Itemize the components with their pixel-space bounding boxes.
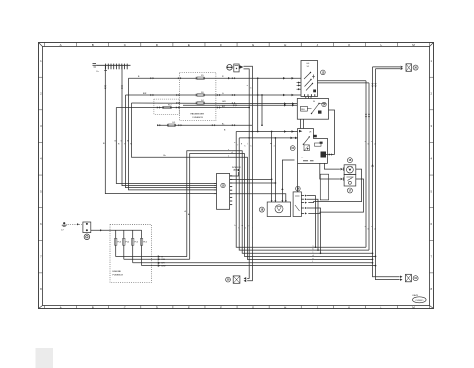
fuse F6 [196,92,204,96]
wire module to washer pump pin4 [230,194,286,202]
fuse FL5 [132,230,134,262]
labels on relay feed verticals [234,142,238,147]
wire branch row F4 down to rail C [132,103,373,259]
svg-text:LR: LR [309,131,312,133]
svg-text:c: c [371,141,372,143]
junction rail A / vertical 3 [372,252,374,254]
labels on center rails [228,143,252,158]
svg-text:E: E [188,43,190,47]
fuse FL2 [163,105,173,109]
svg-text:d: d [313,255,314,257]
wire washer pump feed 1 [271,132,273,203]
connector battery wire [77,223,79,225]
svg-text:g: g [241,143,242,145]
instrument cluster lamp module [234,64,239,72]
junction switch pin3 rail [320,252,322,254]
motor M1 [344,165,356,175]
connector marks FL2 row [157,106,298,139]
svg-text:F5: F5 [201,75,204,77]
svg-text:16: 16 [348,158,351,162]
callout 10 central module [221,183,225,187]
ignition switch bottom pins [305,94,315,96]
connector lamp module output [240,65,244,69]
svg-text:p: p [249,225,250,227]
wire relay2 to switch box [297,163,299,192]
wire module to washer pump pin2 [230,182,276,184]
wire feed to connector C2 upper [373,66,401,68]
svg-text:n: n [274,146,275,148]
svg-text:d: d [374,144,375,146]
wire ignition to relay coil 2 [307,97,309,99]
connector mark on wire B [104,86,106,90]
svg-text:H: H [284,43,286,47]
wire fuse row F6 [126,95,302,188]
wire relay feed vertical a [236,132,366,248]
svg-text:G/R: G/R [222,101,226,103]
wire relay K1 output right [329,110,335,155]
interior lamps feed arrow [230,167,242,176]
connector C3 [233,276,246,283]
labels on right verticals top [365,141,376,146]
svg-text:h: h [244,146,245,148]
svg-text:e: e [228,156,229,158]
wiper delay unit [320,174,328,200]
supply bus bar 30 [93,64,131,73]
wire engine fuse outputs [116,257,376,266]
svg-text:k: k [235,225,236,227]
ground point callout 9 [84,234,90,240]
fuse FL4 [123,230,125,259]
fusebox enclosure FL2 (dashed) [154,99,179,114]
junction switch pin2 rail [317,249,319,251]
connector marks FL row [157,124,294,133]
wire lamp drop 2 [244,69,250,108]
svg-text:a: a [365,141,367,143]
engine fusebox bus [110,229,142,231]
svg-text:LAMPS: LAMPS [233,168,240,171]
svg-text:H: H [284,305,286,309]
connector marks on verticals 3-4 [371,83,376,87]
junction row F5 branch [257,77,259,79]
svg-text:R/B: R/B [162,259,166,261]
connector C4 [400,274,411,282]
switch box pins right [301,195,307,215]
svg-text:d: d [232,152,233,154]
svg-text:B/W: B/W [162,266,166,268]
svg-text:FL4: FL4 [126,242,130,244]
connector marks row F4 [176,102,294,105]
wire ignition feed right upper [318,80,367,82]
wire switch pin2 down [307,199,318,250]
svg-text:3: 3 [431,124,433,128]
wire ignition feed right lower [318,82,370,84]
passenger fusebox (dashed) [180,73,216,121]
wire rail A [187,151,373,257]
svg-text:F: F [220,305,222,309]
wire ignition to relay coil 1 [305,97,307,99]
wire relay feed row [183,104,297,106]
callout 17 wiper switch [347,188,352,193]
junction lamp drop4 / relay row a [252,131,254,133]
pin arrows washer pump [271,200,287,202]
ignition switch U1 [301,61,318,97]
labels on rail risers [185,210,191,216]
connector mark on row F5 left [228,77,230,79]
warning lamp L1 [227,65,233,71]
wire battery to isolator (dashed) [67,223,83,225]
wire washer pump pin3 sense [282,160,294,202]
junction pump feed 1 [271,131,273,133]
wire resistor output [326,154,335,156]
svg-text:c: c [313,252,314,254]
callout 19 switch box [296,186,301,191]
fuse FL6 [141,230,143,265]
connector isolator output [100,229,102,231]
svg-text:18: 18 [260,208,263,212]
callout 18 washer pump [259,207,264,212]
svg-text:K: K [348,43,350,47]
svg-text:5: 5 [431,189,433,193]
svg-text:RFH: RFH [301,109,305,111]
svg-text:8: 8 [40,287,42,291]
wire isolator to engine fusebox [91,229,110,231]
wire washer pump feed 2 [274,138,276,202]
svg-text:F: F [220,43,222,47]
svg-text:b: b [368,229,369,231]
svg-text:6: 6 [431,222,433,226]
svg-text:15: 15 [291,147,294,150]
central control module U2 [217,174,230,210]
battery positive terminal [61,222,67,231]
svg-text:FL5: FL5 [135,242,139,244]
washer pump P1 [267,202,290,217]
svg-text:A: A [60,305,62,309]
switch box S2 [293,192,301,217]
callout 30 connector C2 [413,65,418,70]
labels on left cluster wires [115,141,133,146]
wire switch pin3 down [307,208,321,253]
connector marks row F5 [138,76,294,79]
svg-text:D+: D+ [97,71,100,73]
svg-text:1-1: 1-1 [307,66,310,68]
wire row F6 branch down [261,95,263,125]
svg-text:A: A [185,210,187,213]
connector motor feed [341,168,344,171]
central module right pins [230,176,233,205]
wire ignition to relay coil 3 [310,97,312,99]
svg-text:e: e [313,258,314,260]
svg-text:F4: F4 [201,100,204,102]
svg-text:3: 3 [40,124,42,128]
svg-text:r: r [252,227,253,230]
svg-text:17: 17 [348,188,351,192]
svg-text:E: E [188,305,190,309]
svg-text:7: 7 [40,255,42,259]
engine fusebox (dashed) [110,225,152,283]
svg-text:FUSEBOX: FUSEBOX [113,275,124,277]
svg-text:b: b [368,144,369,146]
drawing frame [39,43,434,310]
wire battery feed B down from bus [103,65,213,193]
svg-text:FL6: FL6 [143,242,147,244]
svg-text:F6: F6 [201,92,204,94]
svg-text:1: 1 [431,59,433,63]
svg-text:c: c [228,149,229,151]
wire module to washer pump pin1 [230,178,272,180]
junction rail C / vertical 3 [372,259,374,261]
fuse F5 [196,75,204,79]
battery isolator box [83,222,91,233]
wire motor return upper [308,169,361,203]
connectors on engine fuse outputs [158,255,166,267]
svg-text:B: B [92,305,94,309]
resistor block in relay module [321,152,327,158]
connector mark on bus drop 2 [121,86,123,90]
callout 14 relay K1 [322,102,326,106]
svg-text:B/R: B/R [143,93,147,95]
fuse FL3 [115,230,117,256]
wire main feed vertical 4 [376,69,400,280]
callout 13 ignition switch [321,70,326,75]
svg-text:A: A [60,43,62,47]
svg-text:a: a [365,226,367,228]
labels on center rails lower [235,225,254,230]
wire relay feed vertical b [239,138,369,250]
svg-text:C7: C7 [61,229,64,231]
connector marks resistor output [329,153,333,155]
connector marks row F6 [143,93,294,96]
wire main feed vertical 3 [373,67,400,277]
wire bus drop 2 to module [122,65,213,185]
svg-text:FUSEBOX: FUSEBOX [193,117,204,119]
svg-text:PASSENGER: PASSENGER [191,113,205,116]
central module left pins [213,184,216,194]
svg-text:CUMMO: CUMMO [415,300,423,302]
svg-text:ENGINE: ENGINE [113,271,122,273]
wire relay module feed row a [236,131,297,133]
svg-text:FL3: FL3 [118,242,122,244]
svg-text:8: 8 [431,287,433,291]
wire row F5 branch down [257,78,259,131]
labels on pump feed wires [270,143,275,148]
svg-text:b: b [250,88,251,90]
grey watermark square outside frame [36,348,54,368]
callout 20 connector C3 [226,277,231,282]
svg-text:20: 20 [227,279,230,282]
svg-text:30: 30 [313,101,315,103]
svg-text:n: n [245,228,246,230]
svg-text:d: d [374,229,375,231]
labels on long bottom rails [313,246,315,264]
svg-text:W: W [127,141,129,143]
junction lamp drop 2 / FL2 row [248,107,250,109]
junction switch pin1 rail [315,246,317,248]
junction pump feed 2 [275,137,277,139]
wire ignition branch right vertical 2 [368,83,370,250]
svg-text:j: j [247,143,249,145]
connector marks on verticals 1-2 [365,114,370,118]
callout 15 relay module [290,146,295,151]
svg-text:2: 2 [431,92,433,96]
diagram code label [413,294,427,303]
svg-text:c: c [371,226,372,228]
labels on lamp drops [247,85,252,90]
wire park switch feed [320,163,340,179]
direction arrow pump sense wire [281,188,283,190]
svg-text:b: b [313,249,314,251]
svg-text:a: a [247,85,249,87]
wire fusible link FL row [157,125,252,281]
svg-text:FL2: FL2 [168,105,172,107]
wire fuse row F5 (net 30) [129,78,302,190]
svg-text:m: m [242,225,244,227]
connector park switch feed [341,177,344,180]
wire fuse row F4 [132,102,298,105]
svg-text:30: 30 [414,66,417,69]
wire relay2 to motor feed [324,163,340,169]
svg-text:KA78: KA78 [413,294,419,297]
callout 31 connector C4 [413,276,418,281]
fuse FL [167,122,176,126]
svg-text:N: N [130,143,132,145]
svg-text:B: B [92,43,94,47]
svg-text:31: 31 [414,277,417,280]
svg-text:B: B [103,143,105,145]
svg-text:4: 4 [40,157,42,161]
svg-text:1: 1 [40,59,42,63]
junction rail B / vertical 4 [375,256,377,258]
svg-text:0-0: 0-0 [307,63,310,65]
labels on right verticals bottom [365,226,376,231]
connector C2 [401,64,412,72]
wire rail B [190,154,376,260]
wire relay1 to relay2 pin b [303,119,305,128]
junction engine rails to verticals [372,262,374,264]
wire fusible link FL2 row [116,108,250,279]
svg-text:4: 4 [431,157,433,161]
svg-text:6: 6 [40,222,42,226]
wire feed to connector C2 lower [376,68,401,70]
fuse F4 [196,100,204,104]
connector marks relay feed row [233,104,294,107]
wire relay1 to relay2 pin a [300,119,302,128]
svg-text:f: f [238,145,239,147]
wire switch pin1 down [307,196,316,248]
ignition switch left pin stubs [297,82,302,91]
direction arrow on vertical 3 [371,164,374,167]
junction row F6 branch [261,94,263,96]
wire relay module feed row b [239,137,297,139]
svg-text:K: K [348,305,350,309]
junction FL2 drop / relay row [248,137,250,139]
wire motor return lower [308,179,363,213]
wire ignition branch right vertical 1 [365,81,367,247]
svg-text:F/L: F/L [173,122,177,124]
svg-text:~~: ~~ [301,157,303,159]
svg-text:7: 7 [431,255,433,259]
relay module K2 [298,129,328,164]
svg-text:2: 2 [40,92,42,96]
svg-text:k: k [251,146,252,148]
wire lamp drop 1 [244,66,253,125]
svg-text:5: 5 [40,189,42,193]
relay K1 [297,99,328,120]
callout 16 motor [347,158,352,163]
svg-text:B: B [224,130,226,132]
svg-text:R: R [118,143,120,145]
wiper gear switch [344,174,356,186]
svg-text:e: e [234,142,235,144]
